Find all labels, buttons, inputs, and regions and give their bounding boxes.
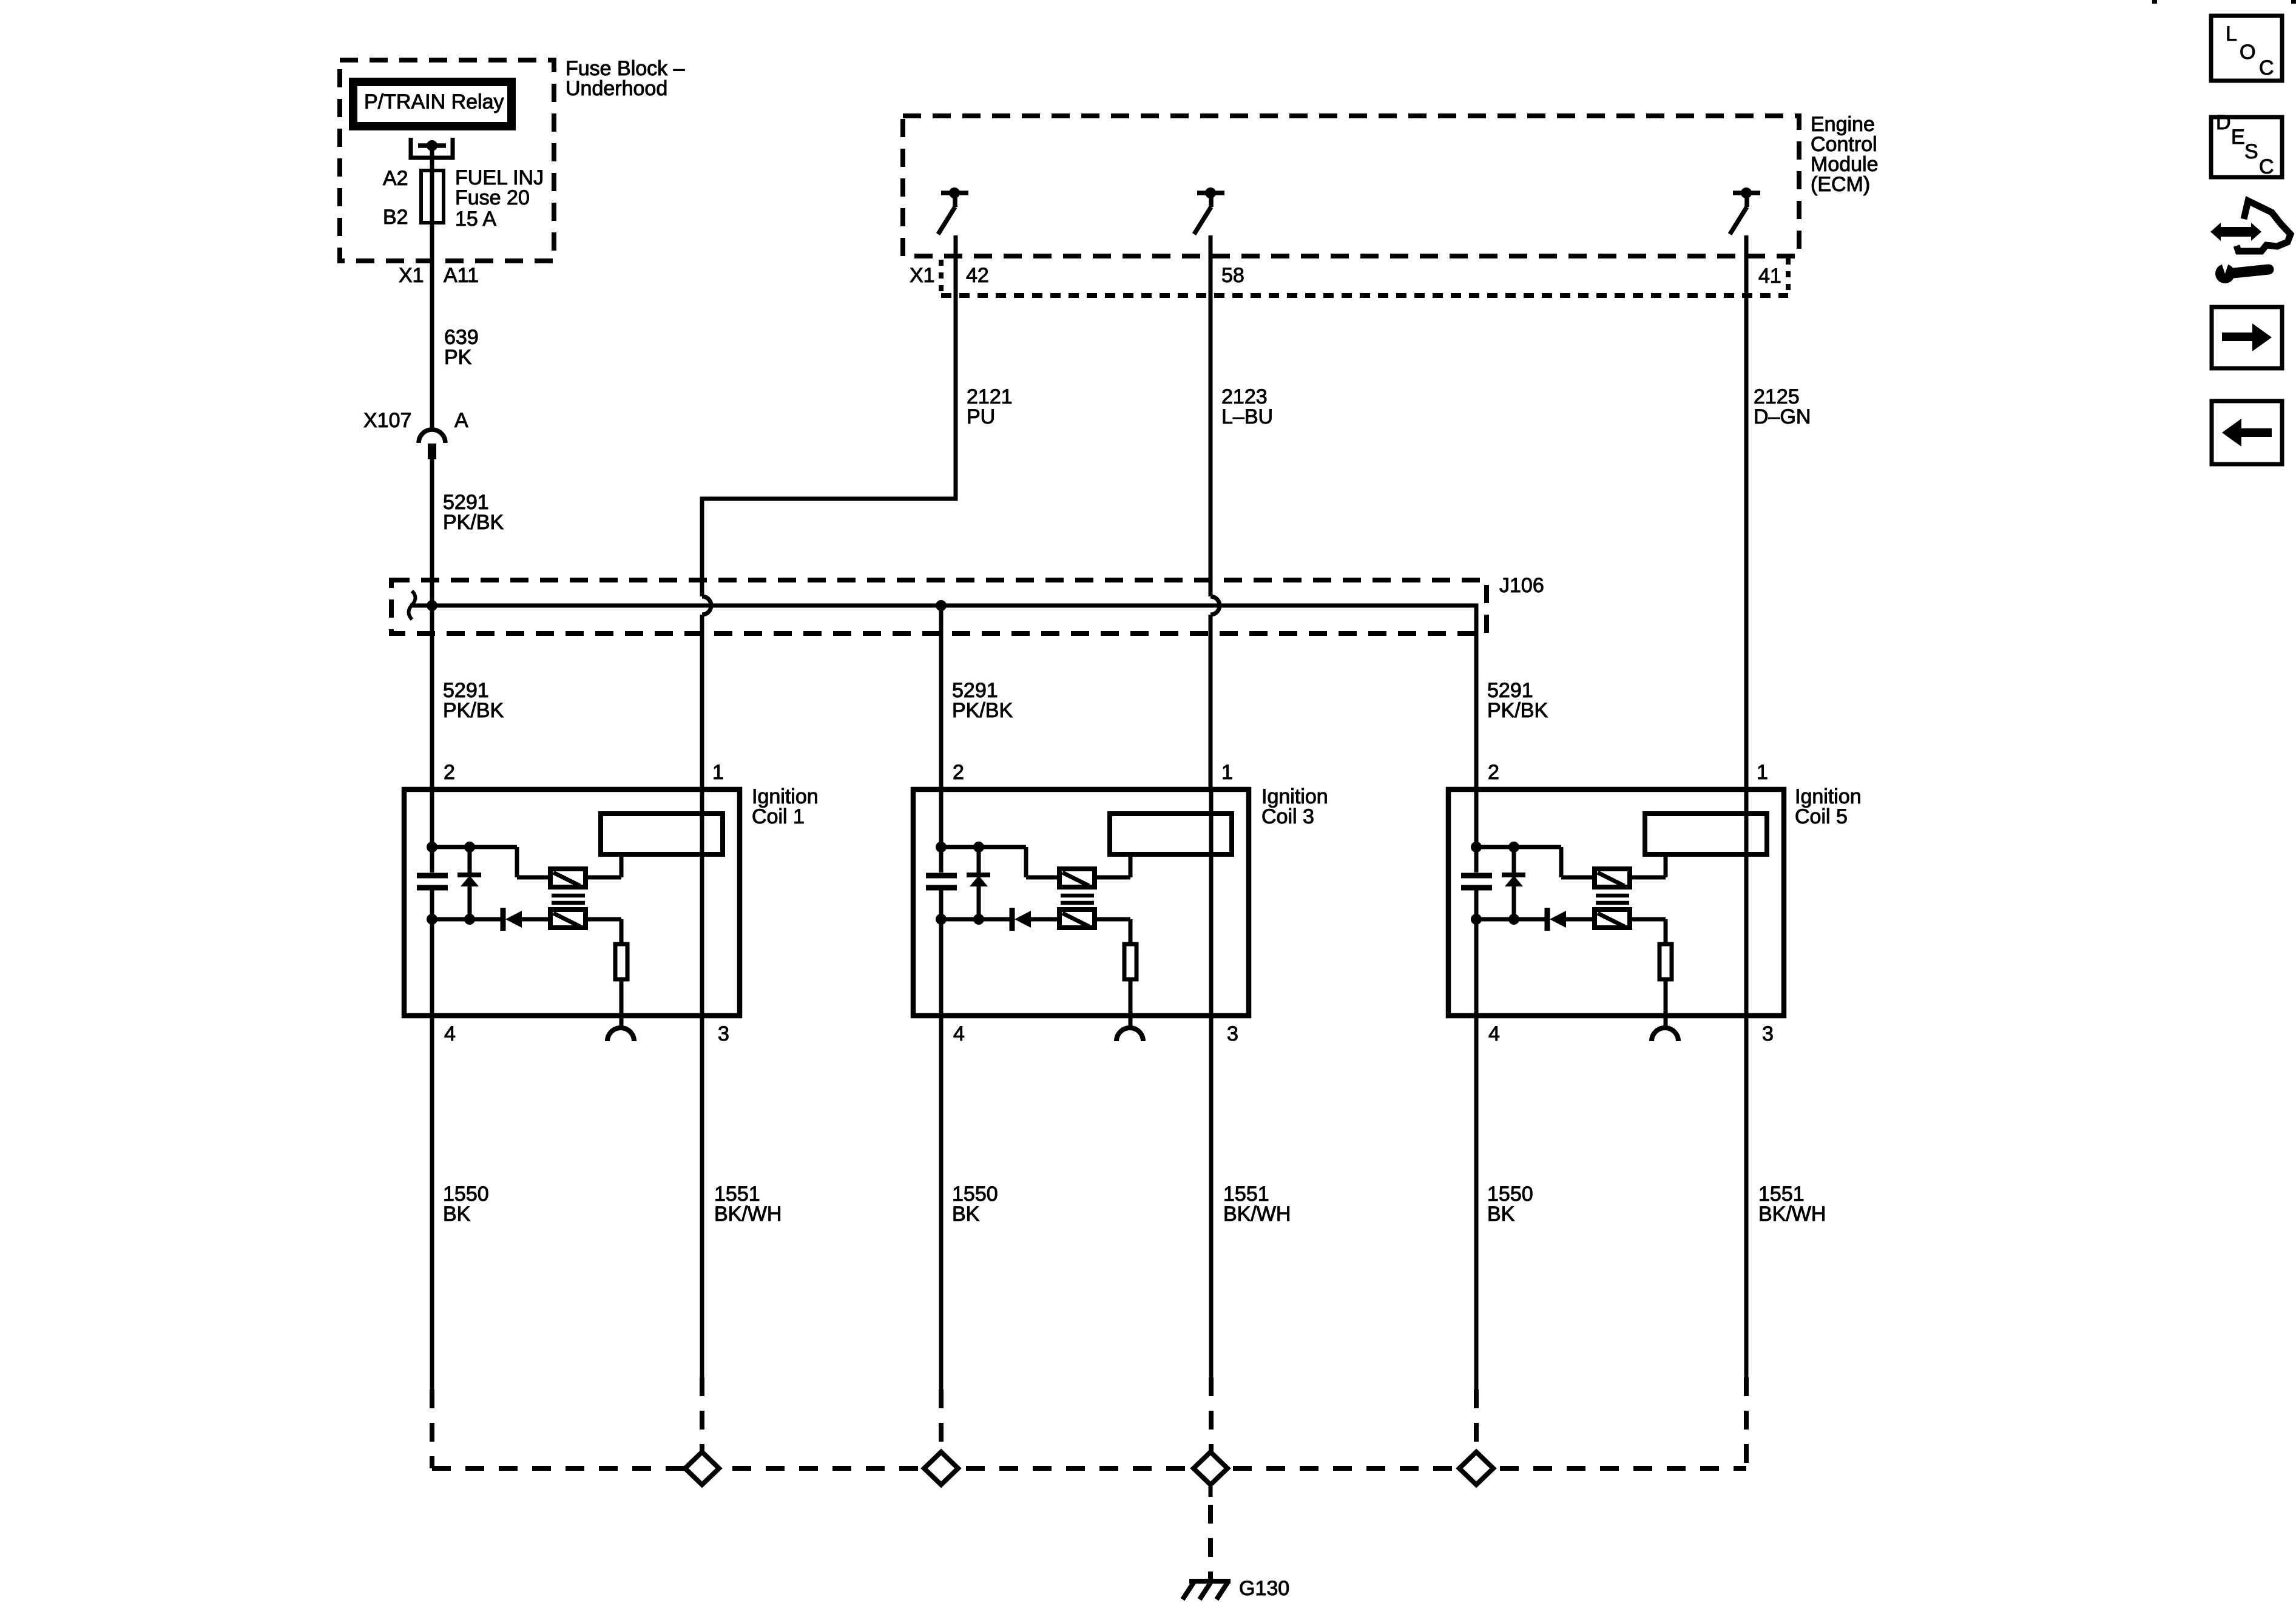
- svg-text:PK: PK: [444, 346, 472, 369]
- svg-text:Fuse 20: Fuse 20: [455, 186, 530, 209]
- svg-text:58: 58: [1221, 264, 1244, 287]
- svg-text:E: E: [2231, 126, 2245, 149]
- svg-text:C: C: [2259, 56, 2274, 79]
- svg-text:42: 42: [966, 264, 989, 287]
- svg-text:15 A: 15 A: [455, 208, 496, 231]
- svg-text:Underhood: Underhood: [566, 77, 667, 100]
- svg-text:G130: G130: [1239, 1577, 1289, 1600]
- svg-text:A: A: [454, 409, 468, 432]
- svg-text:Coil 3: Coil 3: [1261, 805, 1314, 828]
- svg-text:(ECM): (ECM): [1811, 173, 1870, 196]
- svg-text:P/TRAIN Relay: P/TRAIN Relay: [364, 90, 504, 113]
- svg-text:S: S: [2244, 140, 2258, 163]
- svg-text:J106: J106: [1499, 574, 1544, 597]
- svg-text:Coil 1: Coil 1: [752, 805, 805, 828]
- svg-text:X107: X107: [363, 409, 411, 432]
- svg-text:O: O: [2240, 41, 2255, 64]
- svg-text:PU: PU: [967, 405, 995, 428]
- svg-text:Coil 5: Coil 5: [1795, 805, 1848, 828]
- svg-text:D–GN: D–GN: [1754, 405, 1811, 428]
- svg-text:X1: X1: [910, 264, 935, 287]
- svg-text:A2: A2: [383, 167, 408, 190]
- svg-text:D: D: [2216, 111, 2231, 134]
- svg-text:A11: A11: [444, 264, 479, 287]
- svg-text:41: 41: [1758, 265, 1781, 288]
- svg-text:L: L: [2226, 22, 2237, 46]
- svg-text:B2: B2: [383, 206, 408, 229]
- svg-text:X1: X1: [399, 264, 424, 287]
- svg-text:C: C: [2259, 155, 2274, 178]
- svg-text:PK/BK: PK/BK: [443, 511, 504, 534]
- svg-text:L–BU: L–BU: [1221, 405, 1273, 428]
